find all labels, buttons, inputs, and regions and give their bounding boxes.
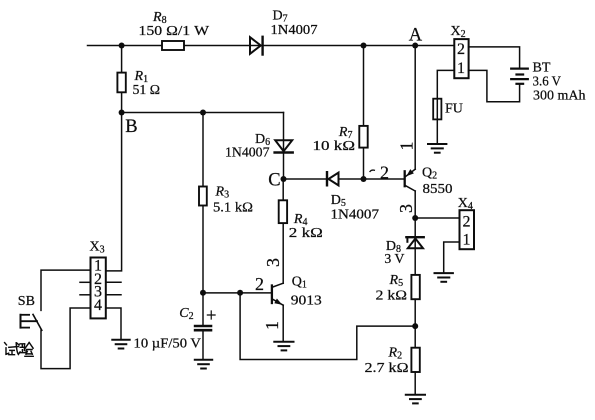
resistor R5 (376, 273, 420, 304)
svg-text:A: A (409, 26, 423, 46)
junction R7 bottom (361, 176, 367, 182)
svg-text:2.7 kΩ: 2.7 kΩ (365, 361, 409, 376)
svg-text:2: 2 (380, 162, 389, 182)
svg-text:1N4007: 1N4007 (225, 146, 270, 161)
wire X2 pin1 to fuse (437, 70, 454, 98)
wire battery bottom to X2 pin1 (469, 70, 520, 101)
zener diode D8 (384, 237, 423, 267)
svg-text:2 kΩ: 2 kΩ (289, 226, 323, 241)
wire D6 branch down (283, 113, 285, 180)
ground (under R2) (406, 395, 425, 404)
transistor Q2 pin3 label (396, 204, 416, 213)
wire node A to Q2 emitter (414, 46, 416, 170)
transistor Q2 pin1 label (397, 142, 417, 151)
diode D7 (250, 9, 318, 55)
svg-text:10 µF/50 V: 10 µF/50 V (134, 337, 202, 352)
svg-text:2: 2 (255, 274, 264, 294)
ground (under Q1) (274, 342, 293, 351)
svg-text:B: B (125, 117, 137, 137)
svg-text:C: C (268, 170, 280, 190)
svg-text:2: 2 (457, 41, 465, 58)
transistor Q1 pin3 label (263, 258, 283, 267)
ground (under FU) (428, 144, 446, 153)
resistor R3 (199, 113, 253, 293)
wire X3 pin4 to ground (106, 308, 121, 340)
node C (268, 170, 286, 190)
node B (119, 110, 138, 137)
junction top R7 (361, 43, 367, 49)
resistor R4 (279, 179, 323, 283)
wire to X4 (415, 217, 459, 219)
wire top rail (88, 45, 455, 47)
svg-text:150 Ω/1 W: 150 Ω/1 W (139, 24, 210, 39)
svg-text:300 mAh: 300 mAh (533, 89, 586, 104)
wire node B to X3 pin1 (106, 113, 122, 271)
resistor R8 (139, 10, 210, 50)
wire switch bottom to X3 pin4 (41, 308, 91, 369)
wire X2 pin2 to battery (469, 47, 520, 68)
svg-text:1N4007: 1N4007 (271, 23, 318, 38)
svg-text:5.1 kΩ: 5.1 kΩ (213, 201, 253, 216)
junction Q2 collector node (412, 215, 418, 221)
resistor R2 (365, 346, 420, 376)
svg-text:2 kΩ: 2 kΩ (376, 289, 408, 304)
resistor R1 (117, 46, 160, 113)
connector X4 (458, 196, 474, 249)
svg-text:51 Ω: 51 Ω (133, 83, 161, 98)
connector X3 (90, 240, 106, 319)
svg-text:8550: 8550 (423, 182, 453, 197)
X3 pin3 stubs (80, 294, 121, 296)
svg-text:3: 3 (396, 204, 416, 213)
svg-text:4: 4 (94, 297, 102, 314)
svg-text:3.6 V: 3.6 V (533, 75, 562, 90)
wire D5 to Q2 base (339, 178, 404, 180)
wire X4 pin1 to ground (444, 242, 460, 273)
node A (409, 26, 423, 49)
svg-text:FU: FU (445, 102, 463, 117)
junction C2 top (200, 290, 206, 296)
fuse FU (433, 99, 463, 120)
transistor Q2 pin2 tick (370, 170, 374, 171)
connector X2 (451, 24, 469, 78)
wire R5 to junction (414, 299, 416, 348)
ground (under C2) (195, 360, 212, 369)
svg-text:9013: 9013 (291, 294, 322, 309)
svg-text:BT: BT (533, 61, 551, 76)
wire R2 to ground (414, 372, 416, 395)
battery BT (511, 61, 585, 104)
wire node C to D5 (284, 178, 326, 180)
switch SB (18, 294, 42, 330)
ground (under X3) (112, 340, 129, 349)
junction Q1 base feedback (237, 290, 243, 296)
diode D6 (225, 132, 293, 161)
wire fuse to ground (436, 119, 438, 143)
resistor R7 (313, 46, 368, 180)
junction R5/R2 (412, 323, 418, 329)
wire feedback from junction to Q1 base (240, 293, 415, 360)
wire Q1 base (203, 292, 271, 294)
svg-text:3 V: 3 V (384, 252, 404, 267)
wire X3 pin1 to switch (41, 270, 91, 310)
svg-text:1N4007: 1N4007 (331, 208, 380, 223)
wire Q2 collector down (414, 191, 416, 218)
wire B horizontal (122, 112, 284, 114)
ground (under X4) (435, 273, 453, 282)
svg-text:+: + (206, 307, 216, 327)
svg-text:1: 1 (262, 321, 282, 330)
wire Q1 emitter down (282, 305, 284, 341)
capacitor C2 (134, 293, 217, 360)
junction R3 top (200, 110, 206, 116)
wire Q2 collector to D8/R5 (414, 218, 416, 275)
transistor Q2 (405, 166, 453, 198)
X3 pin2 stubs (80, 281, 121, 283)
svg-text:3: 3 (263, 258, 283, 267)
diode D5 (327, 172, 379, 222)
svg-text:1: 1 (397, 142, 417, 151)
svg-text:1: 1 (457, 60, 465, 77)
transistor Q1 pin2 label (255, 274, 264, 294)
transistor Q2 pin2 label (380, 162, 389, 182)
junction top-left (119, 43, 125, 49)
label 试验 (hand-drawn) (5, 343, 34, 357)
transistor Q1 (272, 275, 322, 309)
svg-text:10 kΩ: 10 kΩ (313, 139, 356, 154)
transistor Q1 pin1 label (262, 321, 282, 330)
svg-text:SB: SB (18, 294, 35, 309)
svg-text:1: 1 (463, 232, 471, 249)
svg-text:2: 2 (463, 213, 471, 230)
